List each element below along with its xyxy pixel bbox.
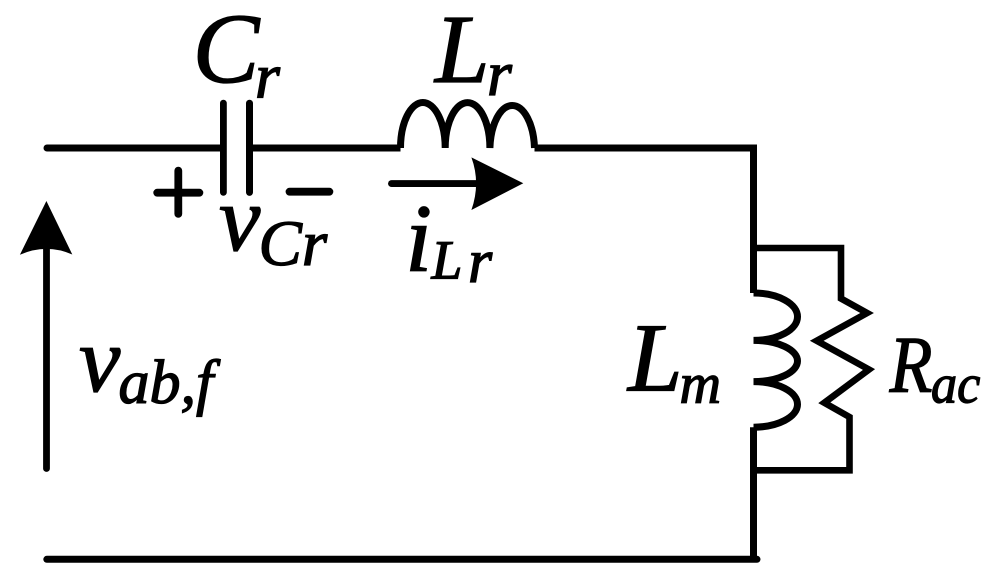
svg-text:ac: ac [931,353,980,415]
svg-text:C: C [193,0,261,104]
svg-text:L: L [626,305,683,413]
svg-text:v: v [79,309,121,412]
svg-text:r: r [255,41,281,112]
svg-text:r: r [468,228,493,296]
svg-text:r: r [487,38,513,109]
svg-text:L: L [431,230,463,291]
svg-text:ab,f: ab,f [119,349,222,417]
svg-text:Cr: Cr [259,208,328,280]
svg-text:m: m [680,353,722,416]
svg-text:L: L [433,0,490,104]
svg-text:i: i [405,185,432,292]
svg-text:R: R [889,321,933,409]
svg-text:v: v [219,168,261,271]
